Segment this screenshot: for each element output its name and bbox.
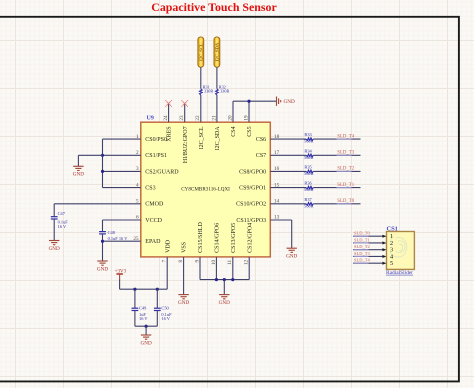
junction ground stub (145, 325, 148, 328)
wire net SLD_T1 to CS1 pin 2 (353, 242, 382, 244)
wire pin 10 down (215, 257, 217, 280)
junction at pin 19 / GND wire (247, 100, 250, 103)
wire pin 20 CS4 up (232, 101, 234, 122)
capacitor C47 0.1uF 16V (51, 217, 58, 219)
svg-text:CY8CMBR3116-LQXI: CY8CMBR3116-LQXI (181, 186, 230, 192)
pin 25 EPAD (left) (133, 236, 161, 245)
wire +3V3 to VDD (119, 280, 121, 290)
svg-text:VSS: VSS (182, 242, 188, 253)
wire pin to R37 (270, 203, 306, 205)
net label SLD_T2 at CS1 (354, 244, 370, 250)
pin 10 CS14/GPO6 (bottom) (211, 223, 221, 265)
svg-text:I2C_SDA: I2C_SDA (215, 42, 220, 61)
wire bus to ground stub (78, 154, 102, 156)
pin 1 CS0/PS0 (left) (136, 134, 167, 143)
wire net SLD_T4 to CS1 pin 5 (353, 262, 382, 264)
connector CS1 pin 5 (382, 260, 393, 267)
svg-text:16 V: 16 V (139, 316, 148, 321)
svg-text:XRES: XRES (167, 126, 173, 141)
pin 24 stub wire (168, 104, 170, 123)
svg-text:560R: 560R (304, 139, 314, 144)
junction C50 on +3V3 rail (156, 288, 159, 291)
pin 5 CMOD (left) (136, 199, 164, 208)
wire pin 13 to ground (270, 219, 291, 221)
pin 13 CS11/GPO3 (right) (236, 215, 279, 224)
ground (CS11/GPO3) (286, 248, 297, 259)
net label SLD_T3 at CS1 (354, 251, 371, 257)
capacitor C49 1uF 16V (132, 308, 139, 310)
pin 7 VDD (bottom) (162, 239, 172, 262)
svg-text:SLD_T4: SLD_T4 (337, 134, 354, 139)
svg-text:330R: 330R (220, 89, 229, 94)
svg-text:I2C_SCL: I2C_SCL (198, 43, 203, 61)
wire net SLD_T0 to CS1 pin 1 (353, 235, 382, 237)
svg-text:CS9/GPO1: CS9/GPO1 (239, 186, 266, 192)
wire C47 to ground (53, 219, 55, 241)
ground (CS0-CS3 net) (73, 166, 84, 177)
junction pin 11 (231, 278, 234, 281)
svg-text:R37: R37 (304, 197, 312, 202)
pin 21 I2C_SDA (top) (211, 115, 221, 150)
svg-text:CS6: CS6 (256, 137, 266, 143)
pin 23 HI/BUZ:GPO7 (top) (179, 115, 189, 163)
pin 4 CS3 (left) (136, 182, 156, 191)
wire C49 top (134, 289, 136, 308)
svg-text:HI/BUZ:GPO7: HI/BUZ:GPO7 (183, 126, 189, 163)
net label SLD_T1 at CS1 (354, 237, 370, 243)
svg-text:R36: R36 (304, 181, 312, 186)
connector CS1 pin 3 (382, 247, 393, 254)
svg-text:CS0/PS0: CS0/PS0 (145, 137, 167, 143)
pin 15 CS9/GPO1 (right) (239, 182, 279, 191)
svg-text:SLD_T0: SLD_T0 (337, 199, 354, 204)
svg-text:CS8/GPO0: CS8/GPO0 (239, 169, 266, 175)
pin 23 stub wire (184, 104, 186, 123)
pin 12 CS12/GPO4 (bottom) (244, 223, 254, 265)
net label SLD_T0 at CS1 (354, 231, 371, 237)
junction bus row 2 (101, 154, 104, 157)
wire C48 to ground (102, 234, 104, 261)
svg-text:VCCD: VCCD (145, 218, 162, 224)
pin 8 VSS (bottom) (178, 242, 188, 263)
svg-text:SLD_T1: SLD_T1 (337, 183, 354, 188)
connector CS1 body (387, 225, 415, 269)
svg-text:330R: 330R (204, 89, 213, 94)
svg-text:C50: C50 (161, 306, 169, 311)
connector CS1 pin 4 (382, 253, 393, 260)
svg-text:CS14/GPO6: CS14/GPO6 (215, 223, 221, 253)
no-connect X on pin 24 (165, 100, 172, 107)
wire C49/C50 bottoms (134, 311, 136, 327)
wire pin row to bus (103, 154, 141, 156)
ground (VSS) (178, 295, 189, 306)
pin 9 CS15/SHLD (bottom) (194, 222, 204, 263)
wire bus vertical (CS0-CS3) (102, 139, 104, 188)
svg-text:CS13/GPO5: CS13/GPO5 (231, 223, 237, 253)
svg-text:CS5: CS5 (247, 126, 253, 136)
svg-text:SLD_T3: SLD_T3 (354, 251, 371, 256)
net label SLD_T4 (337, 134, 355, 139)
svg-text:CMOD: CMOD (145, 202, 164, 208)
wire pin to R33 (270, 138, 306, 140)
wire pins 9-12 horizontal (200, 279, 249, 281)
resistor R35 560R (304, 165, 314, 177)
pin 18 CS6 (right) (256, 134, 280, 143)
wire VDD pin 7 down (166, 257, 168, 289)
pin 2 CS1/PS1 (left) (136, 150, 167, 159)
wire pin to R36 (270, 187, 306, 189)
svg-text:R33: R33 (304, 132, 312, 137)
wire pin row to bus (103, 170, 141, 172)
svg-text:CS10/GPO2: CS10/GPO2 (236, 202, 266, 208)
svg-text:U9: U9 (147, 116, 154, 122)
wire pin row to bus (103, 187, 141, 189)
svg-text:R35: R35 (304, 165, 312, 170)
pin 16 CS8/GPO0 (right) (239, 166, 279, 175)
wire CMOD pin 5 to C47 (54, 203, 141, 205)
svg-text:C47: C47 (58, 211, 66, 216)
svg-text:16 V: 16 V (58, 224, 67, 229)
svg-text:SLD_T1: SLD_T1 (354, 237, 370, 242)
svg-text:GND: GND (97, 266, 108, 272)
testpoint I2C_SDA (214, 37, 220, 67)
wire pin 12 down (248, 257, 250, 280)
pin 20 CS4 (top) (227, 115, 237, 137)
net label SLD_T3 (337, 151, 355, 156)
svg-text:I2C_SDA: I2C_SDA (215, 126, 221, 151)
pin 24 XRES (top) (163, 115, 173, 142)
wire R31 to pin 22 (200, 95, 202, 122)
wire pin 11 down (232, 257, 234, 280)
wire R35 to net SLD_T2 (313, 170, 360, 172)
wire C50 top (156, 289, 158, 308)
junction EPAD / C48 (101, 240, 104, 243)
svg-text:CS1: CS1 (387, 225, 398, 232)
ground (C49/C50) (140, 335, 151, 346)
no-connect X on pin 23 (181, 100, 188, 107)
wire net SLD_T2 to CS1 pin 3 (353, 249, 382, 251)
resistor R36 560R (304, 181, 314, 193)
svg-text:SLD_T0: SLD_T0 (354, 231, 371, 236)
wire I2C_SCL testpoint to R31 (200, 67, 202, 89)
pin 17 CS7 (right) (256, 150, 280, 159)
svg-text:SLD_T3: SLD_T3 (337, 151, 354, 156)
capacitor C50 0.1uF 16V (154, 308, 161, 310)
resistor R33 560R (304, 132, 314, 144)
wire EPAD pin 25 (103, 240, 141, 242)
svg-text:R34: R34 (304, 148, 312, 153)
svg-text:CS12/GPO4: CS12/GPO4 (247, 223, 253, 253)
net label SLD_T4 at CS1 (354, 258, 371, 264)
svg-text:Capacitive Touch Sensor: Capacitive Touch Sensor (151, 0, 277, 14)
svg-text:CS1/PS1: CS1/PS1 (145, 153, 167, 159)
svg-text:CS15/SHLD: CS15/SHLD (198, 222, 204, 253)
wire R36 to net SLD_T1 (313, 187, 360, 189)
wire R37 to net SLD_T0 (313, 203, 360, 205)
resistor R31 330R (200, 84, 214, 95)
svg-text:560R: 560R (304, 171, 314, 176)
net label SLD_T2 (337, 167, 355, 172)
ground (CS12-CS15) (219, 295, 230, 306)
resistor R32 330R (216, 84, 230, 95)
svg-text:CS3: CS3 (145, 186, 155, 192)
svg-text:SLD_T2: SLD_T2 (337, 167, 354, 172)
svg-text:GND: GND (140, 340, 151, 346)
svg-text:0.1uF 16 V: 0.1uF 16 V (108, 236, 129, 241)
wire R34 to net SLD_T3 (313, 154, 360, 156)
pin 6 VCCD (left) (136, 215, 163, 224)
svg-text:GND: GND (284, 99, 295, 105)
capacitor C48 0.1uF 16V (99, 232, 106, 234)
IC U9 CY8CMBR3116-LQXI body (141, 116, 270, 257)
wire I2C_SDA testpoint to R32 (216, 67, 218, 89)
svg-text:GND: GND (286, 254, 297, 260)
svg-text:RadialSlider: RadialSlider (386, 270, 413, 276)
pin 14 CS10/GPO2 (right) (236, 199, 279, 208)
wire pin 9 down (199, 257, 201, 280)
wire VCCD pin 6 to C48 (103, 219, 141, 221)
wire pin row to bus (103, 138, 141, 140)
power +3V3 (115, 269, 127, 279)
svg-text:EPAD: EPAD (145, 239, 161, 245)
svg-text:CS4: CS4 (231, 126, 237, 136)
svg-text:I2C_SCL: I2C_SCL (199, 126, 205, 149)
svg-text:560R: 560R (304, 155, 314, 160)
wire R32 to pin 21 (216, 95, 218, 122)
svg-text:5: 5 (390, 260, 393, 267)
ground (C47) (49, 241, 60, 252)
net label SLD_T0 (337, 199, 355, 204)
svg-text:GND: GND (49, 246, 60, 252)
svg-text:CS2/GUARD: CS2/GUARD (145, 169, 179, 175)
svg-text:560R: 560R (304, 203, 314, 208)
svg-text:16 V: 16 V (161, 316, 170, 321)
wire CS4/CS5 to GND (233, 100, 277, 102)
ground (C48/EPAD) (97, 261, 108, 272)
pin 22 I2C_SCL (top) (195, 115, 205, 149)
wire pin to R35 (270, 170, 306, 172)
ground (CS4/CS5 net) (277, 97, 295, 106)
svg-text:GND: GND (73, 172, 84, 178)
net label SLD_T1 (337, 183, 355, 188)
svg-text:C48: C48 (108, 230, 116, 235)
svg-text:CS7: CS7 (256, 153, 266, 159)
svg-text:+3V3: +3V3 (115, 269, 127, 274)
pin 11 CS13/GPO5 (bottom) (227, 223, 237, 265)
testpoint I2C_SCL (198, 37, 204, 67)
junction bus row 3 (101, 170, 104, 173)
pin 3 CS2/GUARD (left) (136, 166, 179, 175)
wire VSS pin 8 down (183, 257, 185, 295)
svg-text:GND: GND (219, 300, 230, 306)
svg-text:SLD_T2: SLD_T2 (354, 244, 370, 249)
pin 19 CS5 (top) (243, 115, 253, 137)
connector CS1 pin 2 (382, 240, 393, 247)
junction ground stub pins 9-12 (223, 278, 226, 281)
wire net SLD_T3 to CS1 pin 4 (353, 255, 382, 257)
wire R33 to net SLD_T4 (313, 138, 360, 140)
svg-text:VDD: VDD (165, 239, 171, 253)
junction pin 10 (215, 278, 218, 281)
wire pin 19 CS5 up (248, 101, 250, 122)
wire pin to R34 (270, 154, 306, 156)
connector CS1 pin 1 (382, 233, 393, 240)
svg-text:GND: GND (178, 300, 189, 306)
resistor R34 560R (304, 148, 314, 160)
svg-text:C49: C49 (139, 306, 147, 311)
resistor R37 560R (304, 197, 314, 209)
junction C49 on +3V3 rail (133, 288, 136, 291)
svg-text:560R: 560R (304, 187, 314, 192)
svg-text:SLD_T4: SLD_T4 (354, 258, 371, 263)
